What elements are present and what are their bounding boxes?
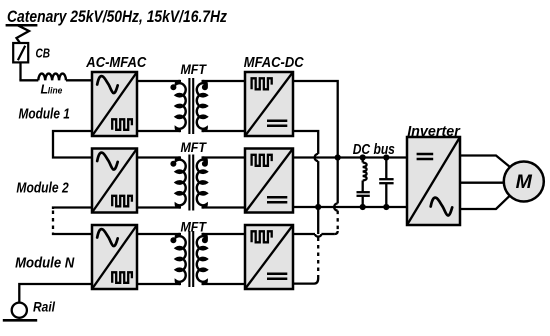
svg-text:Module N: Module N xyxy=(15,255,75,272)
svg-text:Rail: Rail xyxy=(33,299,56,315)
svg-text:M: M xyxy=(516,171,533,193)
svg-text:Catenary 25kV/50Hz, 15kV/16.7: Catenary 25kV/50Hz, 15kV/16.7Hz xyxy=(7,7,227,26)
svg-text:Module 1: Module 1 xyxy=(19,105,70,122)
svg-text:Inverter: Inverter xyxy=(407,123,461,140)
svg-text:MFT: MFT xyxy=(180,140,207,155)
svg-text:Module 2: Module 2 xyxy=(16,180,69,197)
svg-text:DC bus: DC bus xyxy=(353,142,395,158)
svg-text:MFT: MFT xyxy=(180,62,207,77)
svg-text:MFT: MFT xyxy=(180,220,207,235)
svg-text:MFAC-DC: MFAC-DC xyxy=(244,55,304,71)
svg-text:line: line xyxy=(48,86,63,97)
svg-text:CB: CB xyxy=(36,46,51,61)
svg-text:AC-MFAC: AC-MFAC xyxy=(85,55,146,71)
